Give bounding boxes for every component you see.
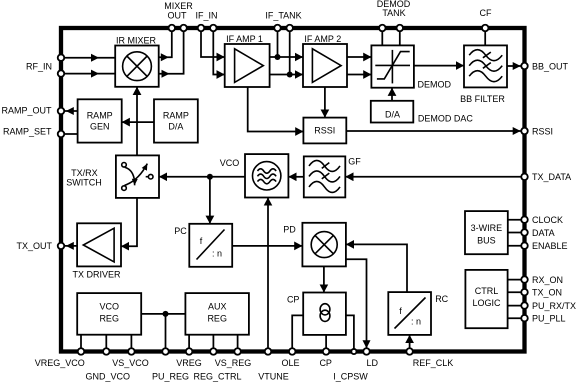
svg-text:TX_ON: TX_ON [532,288,562,298]
block IR MIXER U1 [115,46,159,87]
junction PU_REG [163,311,169,317]
wire TX_DATA to GF [345,176,524,178]
wire amp2 to RSSI [324,87,326,118]
block VCO [245,154,288,197]
wire mixer to MIXER_OUT2 [159,28,184,74]
svg-text:PC: PC [174,226,187,236]
svg-text:RF_IN: RF_IN [26,62,52,72]
pin CLOCK [521,216,528,223]
svg-text:ENABLE: ENABLE [532,241,568,251]
pin TX_ON [521,289,528,296]
svg-text:PU_REG: PU_REG [152,371,189,381]
pin MIXER_OUT 2 [180,25,187,32]
svg-text:MIXER: MIXER [164,1,193,11]
wire amp1 to amp2 bottom [270,74,303,76]
arrowhead RSSI pin [513,127,521,135]
svg-text:TX_OUT: TX_OUT [16,241,52,251]
pin VS_REG [234,348,241,355]
pin RAMP_SET [58,131,65,138]
svg-text:AUX: AUX [208,302,227,312]
svg-text:REG: REG [207,314,227,324]
svg-text:VCO: VCO [99,302,119,312]
pin IF_IN 1 [198,25,205,32]
svg-text:DEMOD DAC: DEMOD DAC [418,113,474,123]
svg-text:: n: : n [411,316,421,326]
wire VS_VCO stub [130,335,132,352]
pin IF_IN 2 [210,25,217,32]
pin CP [323,348,330,355]
wire amp1 to RSSI [248,87,304,132]
wire RSSI to pin [346,130,524,132]
svg-text:CTRL: CTRL [475,286,499,296]
svg-text:IF AMP 1: IF AMP 1 [226,34,263,44]
wire DATA stub [508,232,525,234]
block RC divider [388,292,431,335]
wire PD to CP [323,266,325,292]
pin CF [482,25,489,32]
block BB FILTER [464,45,507,87]
wire mixer to MIXER_OUT1 [159,28,172,57]
wire RAMP_SET to ramp gen [61,133,78,135]
pin GND_VCO [103,348,110,355]
svg-text:TANK: TANK [382,8,405,18]
block IF AMP 2 [303,44,347,87]
block TX/RX SWITCH [116,155,159,198]
wire CLOCK stub [508,219,525,221]
wire RF_IN1 to mixer [61,57,115,59]
arrowhead LD [363,340,371,348]
wire junction to PC [209,177,211,224]
block PC divider [189,224,232,267]
pin VREG_VCO [78,348,85,355]
wire OLE to CP [292,315,303,351]
svg-text:CLOCK: CLOCK [532,215,563,225]
pin RAMP_OUT [58,108,65,115]
arrowhead mixer out2 [162,70,170,78]
svg-text:VTUNE: VTUNE [258,371,289,381]
wire PD to LD [346,259,367,348]
wire I_CPSW to CP block [346,315,354,351]
svg-text:D/A: D/A [385,109,400,119]
svg-text:PU_PLL: PU_PLL [532,314,566,324]
pin LD [363,348,370,355]
arrowhead RF_IN1 [91,54,99,62]
pin PU_REG [162,348,169,355]
wire TX driver to TX_OUT [61,245,77,247]
wire VREG stub [188,335,190,352]
wire REF_CLK to RC [409,335,411,352]
svg-text:GND_VCO: GND_VCO [85,371,130,381]
block 3-WIRE BUS [465,211,508,254]
junction VCO line to PC [207,174,213,180]
pin REG_CTRL [210,348,217,355]
wire GND_VCO stub [105,335,107,352]
arrowhead TX_OUT [66,242,74,250]
svg-text:CP: CP [319,358,332,368]
svg-text:BUS: BUS [477,236,496,246]
pin IF_TANK 1 [274,25,281,32]
wire VCO to switch [159,176,245,178]
svg-text:TX DRIVER: TX DRIVER [72,270,121,280]
wire VCO REG to AUX REG [141,313,185,315]
block GF filter [304,156,346,197]
wire RF_IN2 to mixer [61,73,115,75]
block CTRL LOGIC [465,270,507,328]
svg-text:CF: CF [480,8,492,18]
block AUX REG [185,293,249,335]
svg-text:IF_IN: IF_IN [195,11,217,21]
svg-text:VREG_VCO: VREG_VCO [35,358,85,368]
wire CF stub [484,28,486,45]
svg-text:PD: PD [283,225,296,235]
arrowhead RF_IN2 [91,70,99,78]
pin ENABLE [521,242,528,249]
svg-text:LD: LD [367,358,379,368]
block RAMP GEN [78,99,122,142]
svg-text:RAMP_OUT: RAMP_OUT [1,106,52,116]
svg-text:VCO: VCO [220,158,240,168]
svg-text:IR MIXER: IR MIXER [116,36,157,46]
svg-text:DEMOD: DEMOD [418,80,452,90]
wire amp2 to demod top [347,56,371,58]
pin BB_OUT [521,63,528,70]
block RAMP D/A [154,99,198,142]
wire ramp DA to ramp gen [122,121,154,123]
svg-text:PU_RX/TX: PU_RX/TX [532,301,576,311]
block VCO REG [77,293,141,335]
svg-text:IF AMP 2: IF AMP 2 [304,34,341,44]
block D/A (demod dac) [371,101,414,123]
svg-text:REF_CLK: REF_CLK [413,358,454,368]
svg-text:REG: REG [99,314,119,324]
block PD phase detector [302,223,346,267]
pin REF_CLK [406,348,413,355]
chip outer border [61,28,525,352]
wire amp1 to amp2 top [270,56,303,58]
pin VTUNE [265,348,272,355]
svg-text:GF: GF [348,157,361,167]
svg-text:TX/RX: TX/RX [71,168,98,178]
svg-text:GEN: GEN [90,122,110,132]
wire PC to PD [232,245,302,247]
block IF AMP 1 [225,44,270,87]
pin RF_IN 1 [58,54,65,61]
wire demod to BB filter [414,65,464,67]
wire RC to PD [346,244,407,292]
wire RX_ON stub [508,279,525,281]
wire switch to mixer [136,87,138,156]
wire ramp gen to RAMP_OUT [61,110,78,112]
pin TX_DATA [521,174,528,181]
svg-text:REG_CTRL: REG_CTRL [193,371,241,381]
pin IF_TANK 2 [286,25,293,32]
svg-text:I_CPSW: I_CPSW [333,371,368,381]
wire PU_PLL stub [508,317,525,319]
block TX DRIVER [77,223,121,266]
wire IF_IN2 to IF amp1 [213,28,224,75]
svg-text:D/A: D/A [168,122,183,132]
svg-text:3-WIRE: 3-WIRE [471,223,503,233]
svg-text:OLE: OLE [281,358,299,368]
wire VREG_VCO stub [80,335,82,352]
wire PU_REG stub [165,314,167,352]
wire ENABLE stub [508,245,525,247]
wire IF_TANK2 stub [289,28,291,75]
svg-text:LOGIC: LOGIC [472,298,501,308]
wire GF to VCO [288,176,303,178]
svg-text:RSSI: RSSI [532,126,553,136]
junction IF_TANK2 [287,72,293,78]
pin VREG [186,348,193,355]
svg-text:BB_OUT: BB_OUT [532,61,569,71]
pin RF_IN 2 [58,70,65,77]
block DEMOD limiter [371,45,414,87]
pin RX_ON [521,276,528,283]
wire DA to demod [391,88,393,101]
svg-text:TX_DATA: TX_DATA [532,172,571,182]
pin VS_VCO [128,348,135,355]
pin PU_PLL [521,315,528,322]
svg-text:VS_VCO: VS_VCO [112,358,149,368]
svg-text:RAMP_SET: RAMP_SET [3,127,52,137]
pin DATA [521,229,528,236]
wire CP pin to CP block [325,335,327,352]
wire IF_IN1 to IF amp1 [201,28,225,57]
block RSSI [303,118,346,144]
svg-text:RSSI: RSSI [314,126,335,136]
wire IF_TANK1 stub [277,28,279,57]
pin OLE [289,348,296,355]
pin DEMOD_TANK 2 [397,25,404,32]
block CP charge pump [303,293,346,335]
wire amp2 to demod bottom [347,74,371,76]
wire VTUNE to VCO [267,198,269,352]
wire TX_ON stub [508,291,525,293]
arrowhead mixer out1 [161,53,169,61]
wire BB filter to BB_OUT [507,65,524,67]
svg-text:RX_ON: RX_ON [532,275,563,285]
svg-text:VS_REG: VS_REG [215,358,252,368]
svg-text:: n: : n [212,249,222,259]
wire VS_REG stub [237,335,239,352]
svg-text:DATA: DATA [532,228,555,238]
svg-text:VREG: VREG [176,358,202,368]
svg-text:RAMP: RAMP [163,111,189,121]
pin RSSI [521,128,528,135]
pin PU_RX/TX [521,302,528,309]
pin DEMOD_TANK 1 [379,25,386,32]
wire PU_RX/TX stub [508,305,525,307]
pin MIXER_OUT 1 [169,25,176,32]
wire DEMOD_TANK1 stub [381,28,383,45]
svg-text:IF_TANK: IF_TANK [265,11,301,21]
svg-text:RAMP: RAMP [87,111,113,121]
svg-text:RC: RC [435,294,448,304]
arrowhead RAMP_OUT [66,107,74,115]
svg-text:BB FILTER: BB FILTER [460,94,505,104]
pin I_CPSW [351,349,356,354]
svg-text:CP: CP [287,295,300,305]
wire switch to TX driver [121,198,137,246]
junction IF_TANK1 [275,54,281,60]
svg-text:SWITCH: SWITCH [66,178,102,188]
arrowhead BB_OUT [513,62,521,70]
pin TX_OUT [58,243,65,250]
svg-text:OUT: OUT [168,11,188,21]
wire DEMOD_TANK2 stub [399,28,401,45]
wire REG_CTRL stub [212,335,214,352]
